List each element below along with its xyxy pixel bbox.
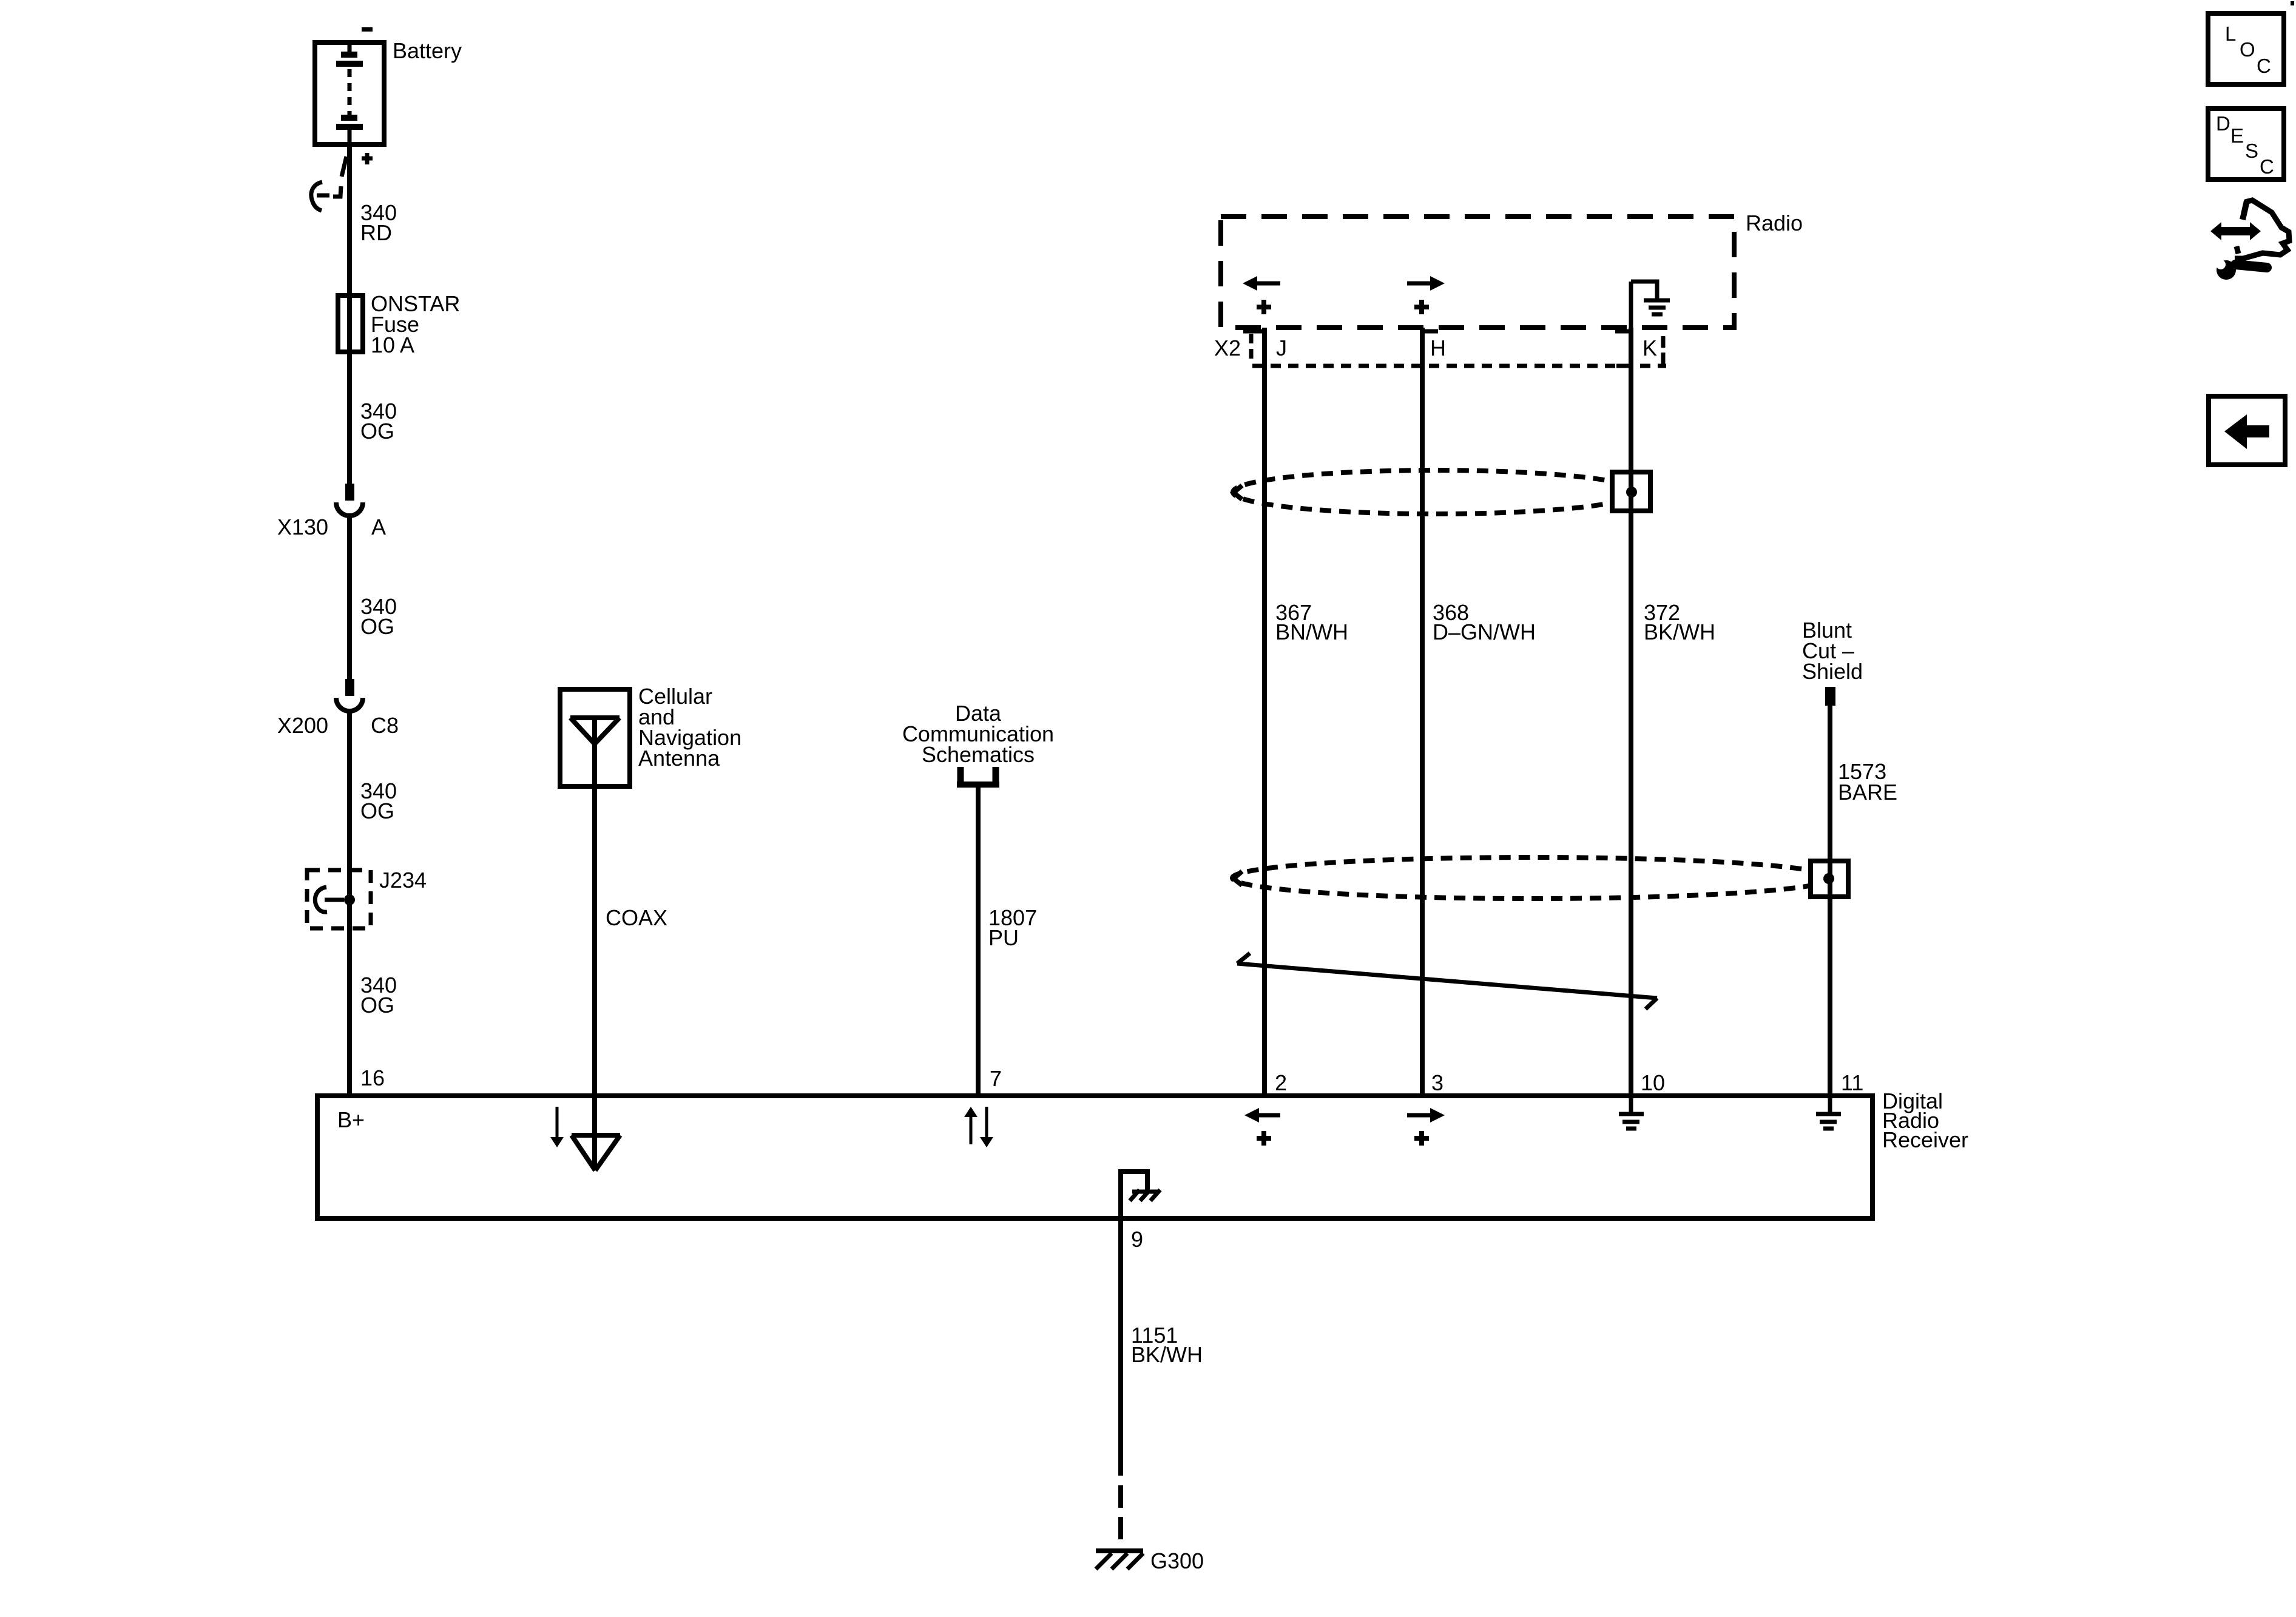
svg-text:2: 2 <box>1275 1070 1287 1095</box>
svg-text:H: H <box>1430 336 1446 360</box>
svg-text:COAX: COAX <box>606 905 667 930</box>
svg-text:BARE: BARE <box>1838 780 1897 805</box>
svg-text:X200: X200 <box>277 713 328 738</box>
svg-text:B+: B+ <box>337 1107 365 1132</box>
svg-text:Receiver: Receiver <box>1882 1127 1968 1152</box>
svg-text:C: C <box>2260 155 2274 178</box>
svg-text:OG: OG <box>360 993 394 1018</box>
svg-text:O: O <box>2240 38 2255 61</box>
svg-text:X2: X2 <box>1214 336 1241 360</box>
svg-text:Shield: Shield <box>1802 659 1863 684</box>
svg-text:K: K <box>1643 336 1657 360</box>
svg-text:OG: OG <box>360 798 394 823</box>
svg-text:J: J <box>1276 336 1287 360</box>
svg-text:Radio: Radio <box>1746 211 1803 235</box>
svg-text:C8: C8 <box>371 713 399 738</box>
svg-text:BK/WH: BK/WH <box>1644 619 1715 644</box>
svg-text:10: 10 <box>1641 1070 1665 1095</box>
svg-text:7: 7 <box>990 1066 1002 1091</box>
svg-text:9: 9 <box>1131 1227 1143 1252</box>
svg-text:L: L <box>2225 22 2236 45</box>
svg-text:A: A <box>371 515 386 539</box>
svg-text:S: S <box>2245 140 2258 162</box>
svg-text:BK/WH: BK/WH <box>1131 1342 1203 1367</box>
svg-text:D–GN/WH: D–GN/WH <box>1433 619 1536 644</box>
svg-text:E: E <box>2230 124 2244 147</box>
svg-text:16: 16 <box>360 1065 385 1090</box>
svg-text:BN/WH: BN/WH <box>1275 619 1348 644</box>
svg-text:OG: OG <box>360 614 394 639</box>
svg-text:10 A: 10 A <box>371 333 414 357</box>
svg-text:Antenna: Antenna <box>638 746 720 771</box>
svg-text:OG: OG <box>360 419 394 444</box>
svg-text:C: C <box>2257 55 2271 77</box>
svg-text:RD: RD <box>360 220 392 245</box>
svg-text:G300: G300 <box>1150 1548 1204 1573</box>
svg-text:3: 3 <box>1431 1070 1443 1095</box>
svg-text:D: D <box>2216 112 2230 135</box>
svg-text:11: 11 <box>1841 1070 1863 1095</box>
svg-text:PU: PU <box>988 925 1019 950</box>
svg-text:Schematics: Schematics <box>922 742 1035 767</box>
svg-text:J234: J234 <box>379 868 427 893</box>
svg-text:Battery: Battery <box>393 38 462 63</box>
svg-text:X130: X130 <box>277 515 328 539</box>
